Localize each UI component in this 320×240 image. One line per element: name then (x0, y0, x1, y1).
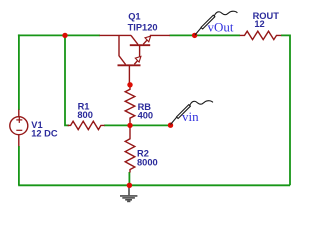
wire: R2 bottom to bottom rail (128, 172, 130, 185)
resistor RB (125, 85, 135, 126)
wire: top rail left (V1+ to transistor) (18, 34, 100, 36)
node: base / RB junction (127, 82, 132, 87)
output transistor emitter (143, 39, 148, 44)
output transistor base bar (130, 44, 150, 46)
svg-text:TIP120: TIP120 (128, 23, 158, 33)
resistor R1 (68, 121, 105, 129)
svg-text:8000: 8000 (137, 157, 158, 167)
wire: left rail lower (V1 to bottom rail) (18, 146, 20, 185)
node: ground junction (127, 183, 132, 188)
wire: emitter output to vOut node and ROUT (170, 34, 241, 36)
transistor Q1 (TIP120 darlington) (100, 35, 171, 85)
node: vin probe junction (168, 123, 173, 128)
base lead of output transistor (139, 45, 141, 57)
wire: branch from top rail down to R1 (65, 35, 69, 125)
resistor ROUT (240, 31, 281, 39)
svg-text:vin: vin (182, 109, 199, 124)
base pin lead down to RB (128, 65, 130, 85)
svg-text:vOut: vOut (208, 20, 234, 35)
node: top rail / R1 branch junction (62, 33, 67, 38)
emitter pin lead to output wire (150, 34, 170, 36)
svg-text:800: 800 (77, 110, 93, 120)
output emitter arrowhead (145, 36, 151, 42)
svg-text:400: 400 (138, 110, 154, 120)
inner emitter arrowhead (135, 56, 141, 62)
voltage source V1 (10, 110, 28, 147)
svg-text:Q1: Q1 (128, 12, 140, 22)
ground (120, 185, 137, 201)
wire: right rail (ROUT to bottom rail) (281, 35, 290, 185)
output transistor collector diagonal (131, 35, 138, 44)
svg-text:12: 12 (254, 19, 264, 29)
inner transistor base bar (118, 64, 141, 66)
svg-text:12 DC: 12 DC (31, 128, 58, 138)
node: R1/RB/R2 divider junction (127, 123, 132, 128)
wire: bottom rail (18, 184, 290, 186)
probe marker vin (171, 101, 213, 125)
wire: R1 right to divider node to vin stub (104, 124, 171, 126)
collector pin lead from top rail (100, 34, 132, 36)
probe marker vOut (195, 11, 237, 35)
wire: left rail upper (top corner down to V1) (18, 34, 20, 110)
node: vOut junction (192, 33, 197, 38)
inner transistor collector drop (119, 35, 126, 64)
resistor R2 (125, 125, 135, 172)
inner transistor emitter (134, 59, 139, 64)
